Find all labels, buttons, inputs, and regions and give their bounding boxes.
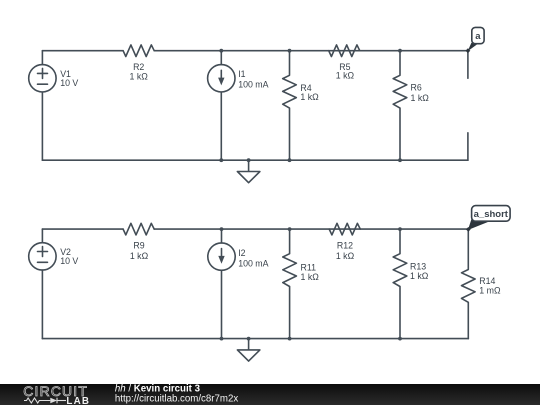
junction dot top rail I1: [219, 49, 223, 53]
svg-text:I1: I1: [238, 69, 245, 79]
svg-text:1 mΩ: 1 mΩ: [479, 286, 501, 296]
resistor R6: [393, 51, 407, 161]
svg-text:1 kΩ: 1 kΩ: [301, 272, 320, 282]
wire I2 leads: [221, 229, 223, 339]
junction dot bottom rail R4: [288, 158, 292, 162]
svg-text:LAB: LAB: [66, 396, 90, 405]
wire top rail right segment (bottom circuit): [154, 228, 468, 230]
svg-text:a_short: a_short: [474, 209, 509, 220]
wire top rail left segment (bottom circuit): [42, 228, 123, 230]
resistor R11: [283, 229, 297, 339]
resistor R9: [123, 223, 154, 235]
svg-text:R12: R12: [337, 241, 353, 251]
svg-text:1 kΩ: 1 kΩ: [410, 271, 429, 281]
resistor R13: [393, 229, 407, 339]
svg-text:1 kΩ: 1 kΩ: [300, 92, 319, 102]
svg-text:I2: I2: [238, 248, 245, 258]
svg-text:R14: R14: [479, 276, 495, 286]
voltage source V2: [29, 243, 56, 270]
node a_short: [466, 206, 510, 232]
resistor R12: [329, 223, 360, 235]
svg-text:100 mA: 100 mA: [238, 258, 268, 268]
svg-text:R6: R6: [411, 83, 422, 93]
resistor R2: [123, 45, 154, 57]
wire stub below node a: [467, 51, 469, 78]
voltage source V1: [29, 65, 56, 92]
CircuitLab logo diode triangle: [50, 398, 57, 404]
current source I2: [208, 243, 235, 270]
resistor R5: [329, 45, 360, 57]
node a: [465, 27, 484, 53]
current source I1: [208, 65, 235, 92]
svg-text:1 kΩ: 1 kΩ: [130, 72, 149, 82]
wire top rail right segment (top circuit): [154, 50, 468, 52]
wire V1 leads: [41, 51, 43, 161]
junction dot bottom rail I2: [220, 337, 224, 341]
footer bar: [0, 384, 540, 405]
svg-text:a: a: [475, 31, 481, 42]
svg-text:R11: R11: [301, 263, 317, 273]
wire top rail left segment (top circuit): [42, 50, 123, 52]
junction dot bottom rail I1: [219, 158, 223, 162]
CircuitLab logo resistor-diode glyph: [24, 398, 66, 404]
svg-text:1 kΩ: 1 kΩ: [411, 93, 430, 103]
junction dot top rail I2: [220, 227, 224, 231]
junction dot bottom rail R6: [398, 158, 402, 162]
svg-text:R2: R2: [133, 62, 144, 72]
wire right stub to bottom rail (top circuit): [467, 133, 469, 160]
wire bottom rail (bottom circuit): [42, 338, 468, 340]
junction dot bottom rail R13: [398, 337, 402, 341]
wire I1 leads: [220, 51, 222, 161]
junction dot top rail R4: [288, 49, 292, 53]
junction dot bottom rail ground (bottom circuit): [247, 337, 251, 341]
ground (top circuit): [237, 160, 260, 183]
svg-text:1 kΩ: 1 kΩ: [130, 251, 149, 261]
svg-text:100 mA: 100 mA: [238, 79, 268, 89]
junction dot bottom rail ground (top circuit): [247, 158, 251, 162]
resistor R4: [283, 51, 297, 161]
arrowhead of I2: [218, 256, 224, 264]
svg-text:R9: R9: [133, 241, 144, 251]
junction dot top rail R11: [288, 227, 292, 231]
svg-text:hh / Kevin circuit 3: hh / Kevin circuit 3: [115, 383, 201, 394]
wire V2 leads: [41, 229, 43, 339]
arrowhead of I1: [218, 78, 224, 86]
wire bottom rail (top circuit): [42, 159, 468, 161]
ground (bottom circuit): [237, 339, 260, 362]
svg-text:10 V: 10 V: [60, 78, 78, 88]
svg-text:1 kΩ: 1 kΩ: [336, 71, 355, 81]
svg-text:1 kΩ: 1 kΩ: [336, 251, 355, 261]
resistor R14: [462, 229, 476, 339]
junction dot top rail R13: [398, 227, 402, 231]
svg-text:http://circuitlab.com/c8r7m2x: http://circuitlab.com/c8r7m2x: [115, 394, 238, 405]
junction dot top rail R6: [398, 49, 402, 53]
junction dot bottom rail R11: [288, 337, 292, 341]
svg-text:R13: R13: [410, 261, 426, 271]
svg-text:10 V: 10 V: [60, 256, 78, 266]
